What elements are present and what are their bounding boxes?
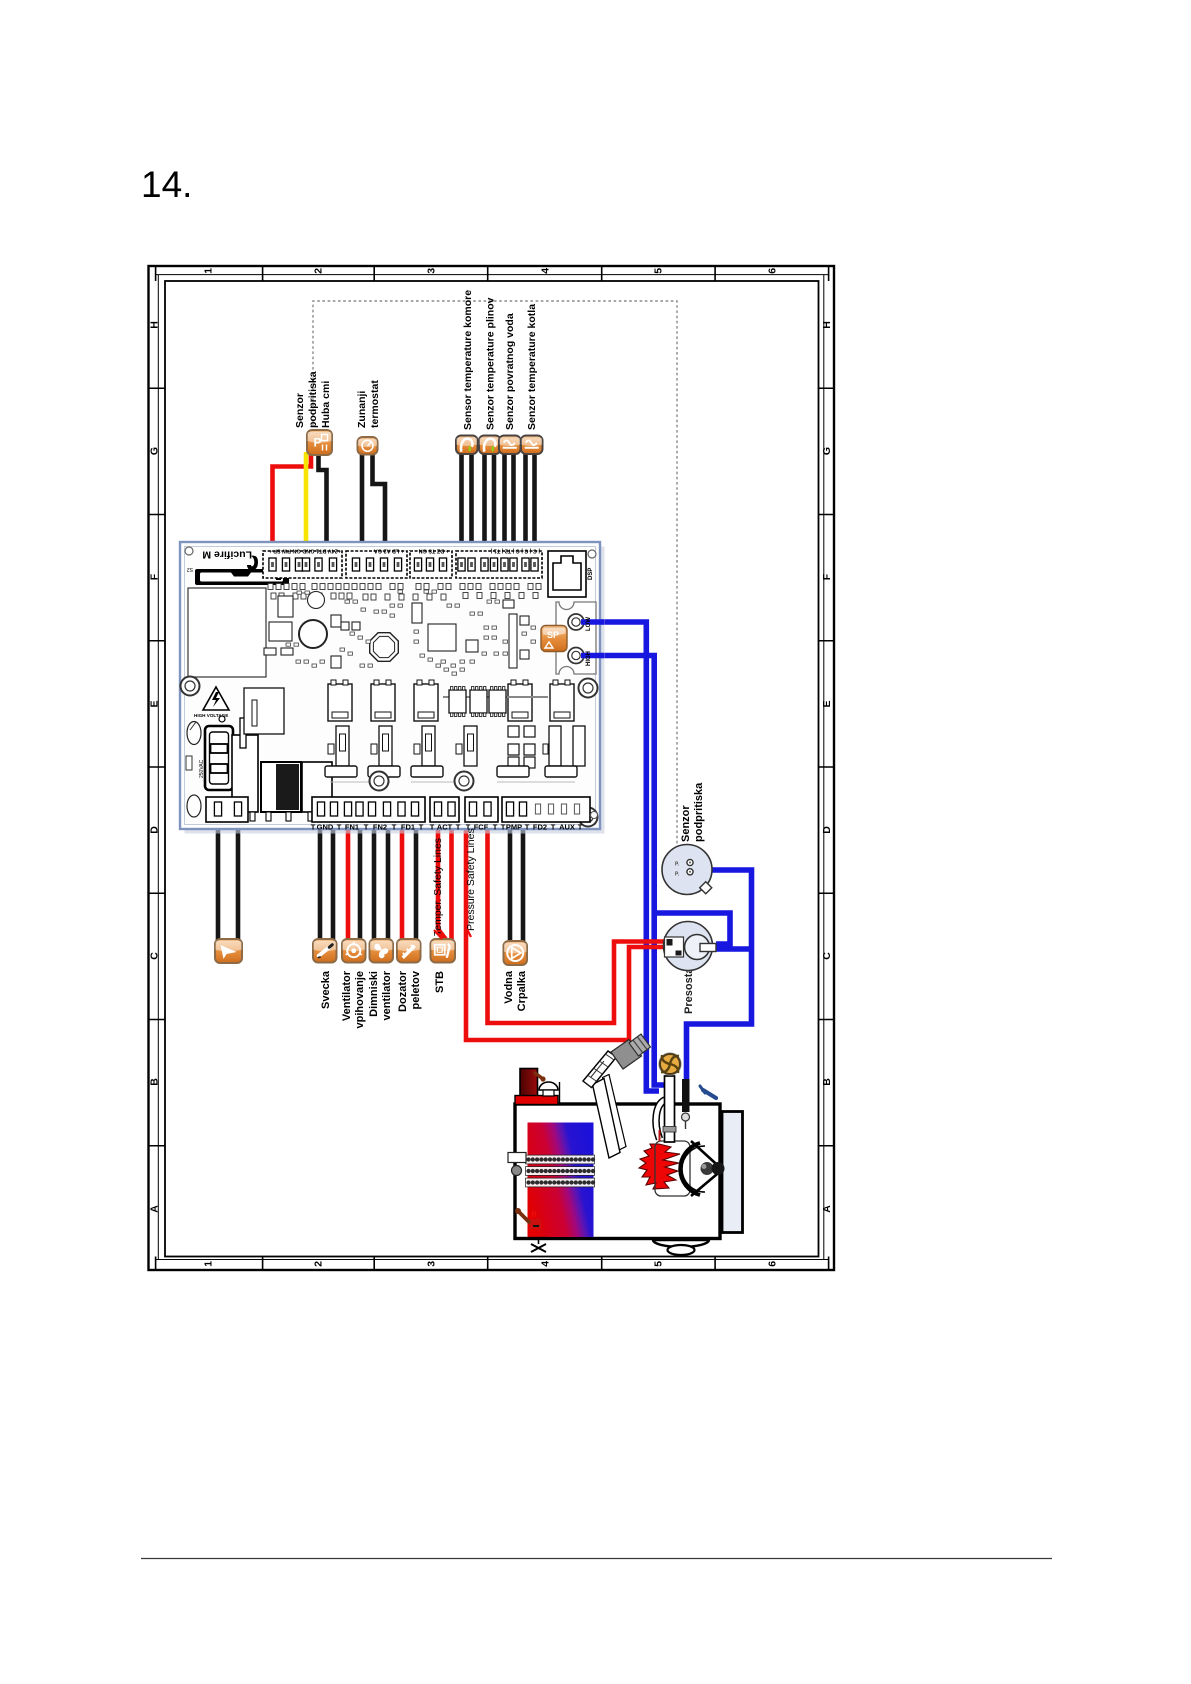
svg-text:P: P bbox=[314, 436, 322, 450]
safety line labels bbox=[432, 828, 477, 936]
svg-text:Ventilator: Ventilator bbox=[341, 970, 353, 1021]
svg-text:podpritiska: podpritiska bbox=[307, 371, 319, 428]
svg-text:T: T bbox=[551, 823, 556, 832]
svg-text:Senzor: Senzor bbox=[680, 805, 692, 842]
svg-text:FD2: FD2 bbox=[533, 823, 547, 832]
LOW HIGH port plate bbox=[556, 602, 596, 674]
svg-text:STB: STB bbox=[434, 971, 446, 993]
heatsink bars bbox=[325, 766, 357, 777]
wires dozator peletov bbox=[400, 830, 405, 941]
svg-text:H: H bbox=[821, 321, 833, 329]
svg-text:+ DZ TS GN: + DZ TS GN bbox=[419, 548, 449, 554]
senzor podpritiska label bbox=[680, 782, 705, 842]
wires vodna crpalka bbox=[510, 830, 523, 941]
svg-text:5: 5 bbox=[652, 268, 664, 274]
svg-text:vpihovanje: vpihovanje bbox=[354, 971, 366, 1028]
relay row bbox=[328, 684, 352, 721]
dashed sensing net bbox=[313, 301, 677, 845]
high voltage warning bbox=[203, 687, 229, 710]
wires svecka bbox=[320, 830, 333, 941]
wire yellow Huba sensor bbox=[304, 452, 309, 545]
svg-text:Senzor temperature kotla: Senzor temperature kotla bbox=[526, 304, 538, 430]
svg-text:2: 2 bbox=[312, 268, 324, 274]
svg-text:F: F bbox=[821, 573, 833, 580]
wire red Huba sensor bbox=[273, 452, 312, 545]
icon svecka bbox=[313, 939, 337, 963]
wires STB temper safety bbox=[438, 830, 447, 941]
bottom connector outputs bbox=[312, 797, 425, 822]
svg-text:1: 1 bbox=[202, 1261, 214, 1267]
svg-text:5: 5 bbox=[652, 1261, 664, 1267]
svg-text:Senzor: Senzor bbox=[294, 393, 306, 428]
DSP socket bbox=[548, 551, 586, 597]
icon vodna crpalka bbox=[504, 941, 528, 965]
svg-text:FD1: FD1 bbox=[401, 823, 415, 832]
senzor podpritiska device bbox=[662, 845, 712, 895]
fan tube bbox=[656, 1100, 665, 1139]
svg-text:B: B bbox=[148, 1078, 160, 1086]
svg-text:Temper. Safety Lines: Temper. Safety Lines bbox=[432, 838, 444, 936]
bottom connector FCF bbox=[465, 797, 498, 822]
SP pressure module bbox=[541, 626, 567, 652]
door panel bbox=[722, 1112, 743, 1233]
svg-text:D: D bbox=[148, 826, 160, 834]
svg-text:+ LD A2 GA: + LD A2 GA bbox=[374, 548, 404, 554]
icon ventilator vpihovanje bbox=[342, 939, 366, 963]
fuse bbox=[187, 722, 201, 745]
svg-text:ventilator: ventilator bbox=[381, 970, 393, 1020]
frame zone numbers and letters bbox=[148, 268, 832, 1267]
svg-text:4: 4 bbox=[539, 1261, 551, 1267]
svg-text:B: B bbox=[532, 1212, 537, 1219]
svg-text:S2: S2 bbox=[187, 566, 193, 572]
bottom connector ACT bbox=[430, 797, 459, 822]
svg-text:Senzor povratnog voda: Senzor povratnog voda bbox=[504, 313, 516, 430]
svg-text:T: T bbox=[337, 823, 342, 832]
svg-text:C: C bbox=[148, 952, 160, 960]
svg-text:T: T bbox=[578, 823, 583, 832]
icon sensor plinov bbox=[479, 436, 501, 455]
LOW HIGH pressure ports bbox=[568, 614, 584, 630]
connector X2 bbox=[346, 551, 407, 578]
buzzer bbox=[370, 633, 399, 662]
svg-text:3: 3 bbox=[425, 268, 437, 274]
svg-text:D: D bbox=[821, 826, 833, 834]
svg-text:podpritiska: podpritiska bbox=[693, 782, 705, 842]
display connector S2 bbox=[195, 569, 289, 585]
heat exchanger gradient bbox=[528, 1123, 594, 1238]
svg-text:Dimniski: Dimniski bbox=[368, 971, 380, 1017]
svg-text:| C | C | C | T2 | T1 |: | C | C | C | T2 | T1 | bbox=[490, 548, 540, 554]
svg-text:Sensor temperature komore: Sensor temperature komore bbox=[462, 290, 474, 430]
svg-text:T: T bbox=[525, 823, 530, 832]
svg-text:H: H bbox=[148, 321, 160, 329]
blue wire branch to presostat upper terminal bbox=[654, 913, 730, 944]
svg-text:T: T bbox=[493, 823, 498, 832]
svg-text:T: T bbox=[364, 823, 369, 832]
svg-text:2: 2 bbox=[312, 1261, 324, 1267]
blue screw bbox=[703, 1090, 716, 1098]
blue wire vacuum sensor to presostat and ignitor bbox=[687, 870, 752, 1082]
svg-text:E: E bbox=[148, 700, 160, 707]
burner cup arcs bbox=[680, 1143, 700, 1195]
svg-text:1: 1 bbox=[202, 268, 214, 274]
icon sensor komore bbox=[456, 436, 478, 455]
wires dimniski ventilator bbox=[374, 830, 388, 941]
svg-text:Svecka: Svecka bbox=[320, 970, 332, 1009]
svg-text:T: T bbox=[456, 823, 461, 832]
svg-text:DSP: DSP bbox=[588, 568, 594, 580]
bottom-left screw bbox=[519, 1212, 529, 1222]
boiler body bbox=[515, 1104, 720, 1239]
icon senzor podpritiska huba bbox=[307, 430, 332, 455]
svg-text:P.: P. bbox=[675, 872, 680, 878]
svg-text:T: T bbox=[501, 823, 506, 832]
svg-text:T: T bbox=[392, 823, 397, 832]
svg-text:250VAC: 250VAC bbox=[199, 759, 205, 778]
fan bbox=[659, 1053, 681, 1075]
blue wire LOW port to fan bbox=[580, 622, 659, 1091]
wire black Huba sensor bbox=[319, 452, 327, 545]
svg-text:4: 4 bbox=[539, 268, 551, 274]
svg-text:B: B bbox=[821, 1078, 833, 1086]
svg-text:Senzor temperature plinov: Senzor temperature plinov bbox=[485, 297, 497, 430]
feet bbox=[653, 1240, 709, 1247]
blue wire HIGH port to fan and presostat branch bbox=[580, 656, 672, 1086]
wires mains plug bbox=[218, 830, 238, 941]
svg-text:FN1: FN1 bbox=[345, 823, 359, 832]
svg-text:Huba cmi: Huba cmi bbox=[320, 381, 332, 428]
svg-text:T: T bbox=[419, 823, 424, 832]
hinge bbox=[701, 1162, 714, 1175]
svg-text:Dozator: Dozator bbox=[397, 970, 409, 1012]
svg-text:GND: GND bbox=[317, 823, 334, 832]
connector X3 bbox=[410, 551, 452, 578]
sensor labels top bbox=[294, 290, 538, 430]
bottom connector PMP FD2 AUX bbox=[502, 797, 590, 822]
door V bbox=[691, 1141, 720, 1196]
svg-text:peletov: peletov bbox=[410, 970, 422, 1009]
wires thermostat bbox=[360, 452, 365, 545]
svg-text:F: F bbox=[148, 573, 160, 580]
flame bbox=[639, 1144, 680, 1189]
svg-text:P.: P. bbox=[675, 862, 680, 868]
bottom connector labels bbox=[311, 823, 583, 832]
icon sensor kotla bbox=[521, 436, 543, 455]
mounting holes bbox=[181, 677, 200, 696]
drawing frame bbox=[149, 266, 835, 1270]
svg-text:AUX: AUX bbox=[559, 823, 575, 832]
icon sensor povratnog bbox=[499, 436, 521, 455]
board components bbox=[188, 588, 529, 677]
connector X4 sensor inputs bbox=[456, 551, 542, 578]
svg-text:ACT: ACT bbox=[437, 823, 453, 832]
exchanger coils bbox=[526, 1155, 595, 1164]
footer rule bbox=[141, 1558, 1052, 1560]
svg-text:FN2: FN2 bbox=[373, 823, 387, 832]
icon dimniski ventilator bbox=[370, 939, 394, 963]
coil side knob bbox=[508, 1153, 526, 1163]
presostat device bbox=[664, 922, 713, 971]
B marker bbox=[530, 1219, 541, 1229]
burner holder bbox=[655, 1141, 690, 1196]
svg-text:T: T bbox=[311, 823, 316, 832]
svg-text:PMP: PMP bbox=[506, 823, 522, 832]
controller board bbox=[185, 547, 605, 834]
svg-text:6: 6 bbox=[766, 1261, 778, 1267]
drain valve bbox=[528, 1237, 549, 1239]
svg-text:G: G bbox=[148, 447, 160, 455]
svg-text:LOW: LOW bbox=[586, 617, 592, 631]
svg-text:SP: SP bbox=[547, 630, 559, 640]
wires temperature sensors bbox=[459, 450, 464, 545]
svg-text:Pressure Safety Lines: Pressure Safety Lines bbox=[465, 828, 477, 931]
connector X1 power bbox=[263, 551, 342, 578]
icon zunanji termostat bbox=[358, 437, 378, 455]
svg-text:Lucifire M: Lucifire M bbox=[202, 549, 252, 561]
driver row bbox=[336, 726, 349, 766]
icon dozator peletov bbox=[397, 939, 421, 963]
smd pads bbox=[268, 584, 541, 601]
relay transformer blocks bbox=[232, 735, 258, 812]
svg-text:T: T bbox=[430, 823, 435, 832]
bottom connector mains bbox=[206, 797, 248, 822]
svg-text:6: 6 bbox=[766, 268, 778, 274]
chimney bbox=[520, 1069, 538, 1098]
svg-text:Crpalka: Crpalka bbox=[516, 970, 528, 1011]
wires ventilator vpihovanje bbox=[346, 830, 351, 941]
svg-text:Zunanji: Zunanji bbox=[356, 391, 368, 428]
icon STB bbox=[431, 939, 456, 963]
svg-text:Vodna: Vodna bbox=[503, 970, 515, 1004]
svg-text:3: 3 bbox=[425, 1261, 437, 1267]
svg-text:+24V DT1 GND GN PW SP +: +24V DT1 GND GN PW SP + bbox=[269, 548, 341, 554]
svg-text:A: A bbox=[148, 1205, 160, 1213]
svg-text:A: A bbox=[821, 1205, 833, 1213]
svg-text:termostat: termostat bbox=[369, 380, 381, 428]
svg-text:E: E bbox=[821, 700, 833, 707]
svg-text:HIGH: HIGH bbox=[586, 651, 592, 666]
bottom icon labels bbox=[320, 970, 528, 1028]
svg-text:G: G bbox=[821, 447, 833, 455]
ignitor bbox=[682, 1079, 690, 1112]
svg-text:C: C bbox=[821, 952, 833, 960]
icon mains plug bbox=[215, 939, 242, 963]
wires pressure safety to presostat bbox=[488, 830, 665, 1023]
